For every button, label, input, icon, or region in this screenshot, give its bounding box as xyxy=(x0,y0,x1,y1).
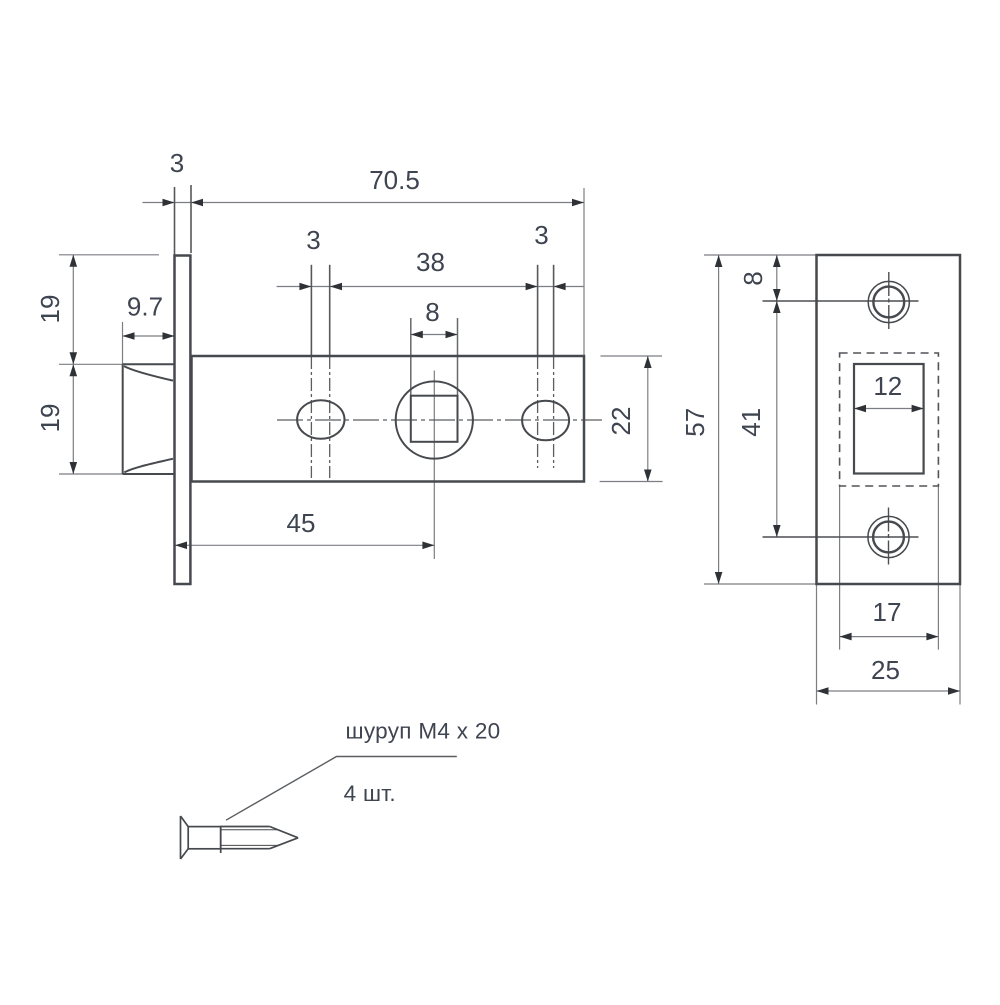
svg-text:19: 19 xyxy=(35,404,65,433)
svg-text:шуруп M4 x 20: шуруп M4 x 20 xyxy=(346,719,501,744)
svg-text:12: 12 xyxy=(873,371,902,401)
svg-text:45: 45 xyxy=(287,508,316,538)
svg-text:8: 8 xyxy=(738,271,768,285)
svg-text:4 шт.: 4 шт. xyxy=(344,781,396,806)
svg-text:57: 57 xyxy=(680,408,710,437)
svg-text:70.5: 70.5 xyxy=(369,165,420,195)
svg-text:41: 41 xyxy=(736,408,766,437)
svg-text:25: 25 xyxy=(871,655,900,685)
svg-text:22: 22 xyxy=(606,407,636,436)
svg-text:8: 8 xyxy=(425,297,439,327)
svg-text:9.7: 9.7 xyxy=(127,292,163,322)
svg-text:3: 3 xyxy=(534,220,548,250)
svg-text:19: 19 xyxy=(35,295,65,324)
svg-text:17: 17 xyxy=(873,597,902,627)
svg-text:38: 38 xyxy=(416,247,445,277)
svg-text:3: 3 xyxy=(306,225,320,255)
svg-text:3: 3 xyxy=(170,148,184,178)
